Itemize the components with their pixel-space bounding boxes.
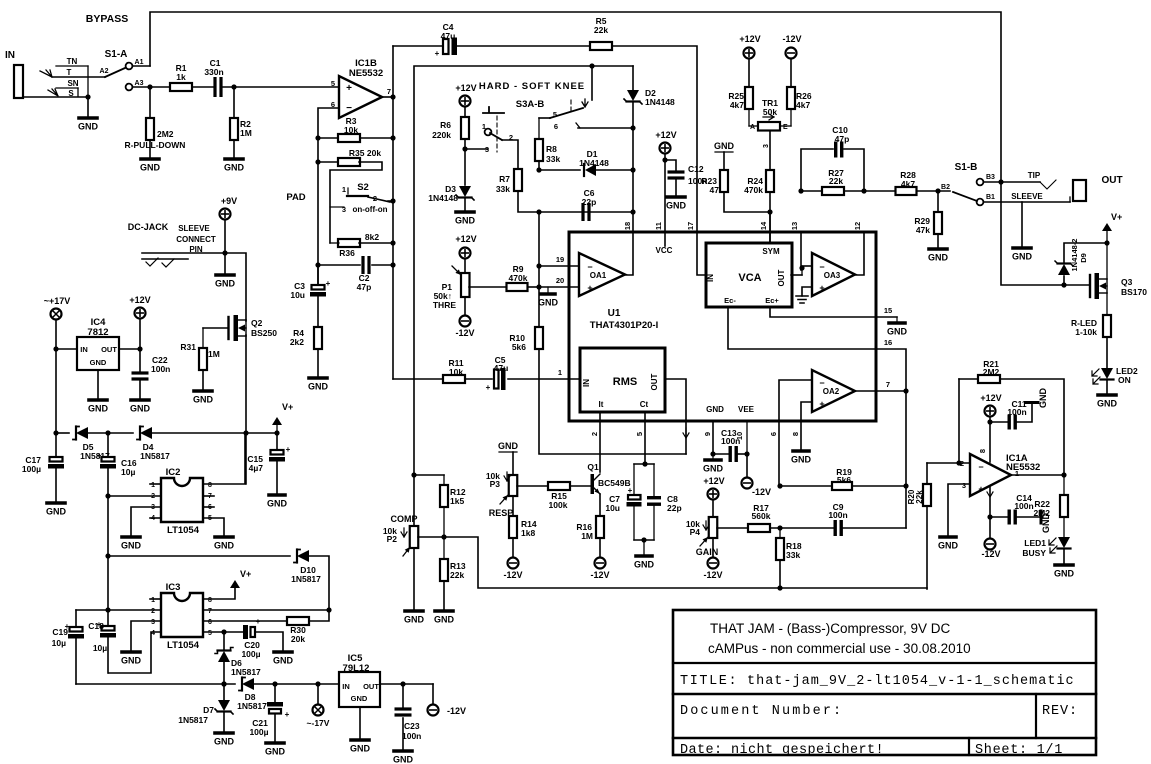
op-amp OA3 xyxy=(812,253,855,296)
svg-text:4µ7: 4µ7 xyxy=(249,463,264,473)
svg-text:GND: GND xyxy=(90,358,107,367)
svg-text:-12V: -12V xyxy=(503,570,522,580)
svg-text:GND: GND xyxy=(224,163,245,173)
resistor R17 560k xyxy=(748,524,770,532)
svg-text:2: 2 xyxy=(590,432,599,436)
svg-text:SLEEVE: SLEEVE xyxy=(178,224,210,233)
wire knee box left and top xyxy=(414,66,633,526)
svg-text:TITLE:: TITLE: xyxy=(680,674,738,689)
svg-text:3: 3 xyxy=(342,205,346,214)
svg-text:GND: GND xyxy=(455,216,476,226)
svg-text:GND: GND xyxy=(88,404,109,414)
ground R4 xyxy=(309,376,327,380)
svg-text:~-17V: ~-17V xyxy=(307,718,330,728)
svg-text:1N5817: 1N5817 xyxy=(231,667,261,677)
svg-text:+: + xyxy=(486,383,491,392)
svg-text:DC-JACK: DC-JACK xyxy=(128,222,169,232)
svg-text:33k: 33k xyxy=(496,184,510,194)
wire R1 to C1 xyxy=(192,86,214,88)
wire Ec+ to pin15 xyxy=(770,307,876,317)
svg-text:~+17V: ~+17V xyxy=(44,296,71,306)
wire IC3 pin7 line xyxy=(203,609,329,611)
svg-text:A: A xyxy=(750,124,755,131)
svg-text:VCA: VCA xyxy=(738,272,761,284)
wire TIP to Q3 gate xyxy=(1001,182,1089,285)
svg-text:GND: GND xyxy=(404,615,425,625)
diode D10 1N5817 xyxy=(297,550,309,562)
svg-text:ON: ON xyxy=(1118,375,1131,385)
svg-text:IN: IN xyxy=(342,682,350,691)
svg-text:D9: D9 xyxy=(1079,253,1088,263)
wire sleeve to ground xyxy=(85,94,90,99)
resistor R6 220k xyxy=(461,117,469,139)
ground R2 xyxy=(225,157,243,161)
wire P3 wiper to R15 xyxy=(517,485,548,487)
svg-text:1: 1 xyxy=(342,185,346,194)
wire IC1B inverting input to feedback xyxy=(318,108,339,285)
svg-text:OA2: OA2 xyxy=(823,387,840,396)
svg-text:+: + xyxy=(286,445,291,454)
connector OUT jack xyxy=(1073,180,1086,201)
capacitor C12 100n xyxy=(665,160,676,170)
resistor R25 4k7 xyxy=(745,87,753,109)
wire IC1A output xyxy=(1011,474,1064,476)
power -12V at IC1A xyxy=(985,539,996,550)
pin 11 VCC stub xyxy=(664,232,666,246)
diode D2 1N4148 xyxy=(632,66,634,90)
svg-text:It: It xyxy=(599,400,604,409)
wire D4 to V+ node xyxy=(152,432,277,434)
wire B3 to TIP xyxy=(984,181,1001,183)
regulator IC4 7812 xyxy=(77,337,119,370)
svg-text:S3A-B: S3A-B xyxy=(516,99,545,110)
ground R-PULL-DOWN xyxy=(141,157,159,161)
svg-text:GND: GND xyxy=(706,405,724,414)
svg-text:19: 19 xyxy=(556,255,564,264)
svg-text:THAT JAM - (Bass-)Compressor,: THAT JAM - (Bass-)Compressor, 9V DC xyxy=(710,621,951,636)
svg-text:IC3: IC3 xyxy=(166,582,181,593)
svg-text:COMP: COMP xyxy=(391,514,418,524)
wire A3 to R1 xyxy=(133,86,170,88)
svg-text:5k6: 5k6 xyxy=(512,342,526,352)
resistor R28 4k7 xyxy=(896,187,917,195)
wire bypass top rail xyxy=(150,12,1001,181)
wire IC2 pin2 xyxy=(108,495,161,497)
svg-text:Sheet: 1/1: Sheet: 1/1 xyxy=(975,743,1063,758)
svg-text:1N5817: 1N5817 xyxy=(140,451,170,461)
svg-text:GND: GND xyxy=(130,404,151,414)
svg-text:SN: SN xyxy=(67,79,78,88)
svg-text:on-off-on: on-off-on xyxy=(352,205,387,214)
resistor R13 22k xyxy=(440,559,448,581)
LED LED1 BUSY xyxy=(1058,537,1070,548)
svg-text:470k: 470k xyxy=(509,273,528,283)
svg-text:22k: 22k xyxy=(594,25,608,35)
svg-text:A1: A1 xyxy=(135,59,144,66)
resistor R10 5k6 xyxy=(535,327,543,349)
ground IC2 pin3 xyxy=(122,535,140,539)
ground IC5 xyxy=(359,707,361,739)
ground IC4 xyxy=(97,370,99,399)
svg-text:100n: 100n xyxy=(828,510,847,520)
svg-text:B3: B3 xyxy=(986,174,995,181)
capacitor C9 100n xyxy=(834,520,837,536)
wire Q1 emitter to R16 xyxy=(599,494,601,516)
pin 14 wire SYM xyxy=(769,212,771,243)
svg-text:+9V: +9V xyxy=(221,196,237,206)
pin15 external ground xyxy=(876,316,897,318)
svg-text:HARD - SOFT KNEE: HARD - SOFT KNEE xyxy=(479,81,585,92)
svg-text:GND: GND xyxy=(393,755,414,764)
transistor Q2 BS250 xyxy=(202,328,204,348)
wire Ec- to pin16 xyxy=(728,307,876,349)
svg-text:P3: P3 xyxy=(490,479,501,489)
svg-text:IN: IN xyxy=(582,379,591,387)
svg-text:C12: C12 xyxy=(688,164,704,174)
svg-text:9: 9 xyxy=(703,432,712,436)
ground C17 xyxy=(47,501,65,505)
capacitor C5 47u xyxy=(494,370,499,389)
wire Q2 drain down xyxy=(245,335,247,484)
ground IC3 pin3 xyxy=(122,650,140,654)
wire pin10 to -12V xyxy=(746,421,748,454)
svg-text:1k: 1k xyxy=(176,72,186,82)
resistor R12 1k5 xyxy=(443,475,445,485)
svg-text:R36: R36 xyxy=(339,248,355,258)
svg-text:GND: GND xyxy=(215,279,236,289)
svg-text:GAIN: GAIN xyxy=(696,547,719,557)
svg-text:TIP: TIP xyxy=(1028,171,1041,180)
svg-text:OUT: OUT xyxy=(777,269,786,286)
ground pin8 xyxy=(793,449,809,453)
svg-text:T: T xyxy=(67,68,72,77)
svg-text:SLEEVE: SLEEVE xyxy=(1011,192,1043,201)
svg-text:10µ: 10µ xyxy=(52,638,66,648)
svg-text:22k: 22k xyxy=(450,570,464,580)
wire P3 to R14 xyxy=(512,496,514,516)
wire IC5 out xyxy=(380,683,433,685)
svg-text:14: 14 xyxy=(759,221,768,230)
wire A1 to bypass rail xyxy=(133,65,150,67)
resistor R27 22k xyxy=(798,188,803,193)
wire P1 wiper to R9 xyxy=(469,286,507,288)
svg-text:R6: R6 xyxy=(440,120,451,130)
svg-text:10u: 10u xyxy=(605,503,620,513)
svg-text:1: 1 xyxy=(1015,469,1019,478)
svg-text:NE5532: NE5532 xyxy=(1006,462,1040,473)
power -12V at R16 xyxy=(595,558,606,569)
switch S3B pole xyxy=(570,100,572,114)
switch S3A contact 3 xyxy=(465,148,488,150)
capacitor C18 10u xyxy=(107,610,109,626)
svg-text:cAMPus - non commercial use -: cAMPus - non commercial use - 30.08.2010 xyxy=(708,641,971,656)
ground jack sleeve xyxy=(79,116,97,120)
svg-text:GND: GND xyxy=(351,694,368,703)
resistor R36 8k2 xyxy=(338,239,360,247)
wire IC2 pin5 to ground xyxy=(203,518,224,536)
ground C11 rotated xyxy=(1026,401,1038,404)
capacitor C21 100u xyxy=(274,684,276,702)
svg-text:+: + xyxy=(256,617,261,626)
svg-text:2: 2 xyxy=(151,608,155,615)
resistor R31 1M xyxy=(199,348,207,370)
op-amp IC1B NE5532 xyxy=(339,76,382,118)
svg-text:+: + xyxy=(435,49,440,58)
wire supply rail to D5 xyxy=(56,432,69,434)
svg-text:1k8: 1k8 xyxy=(521,528,535,538)
svg-text:P2: P2 xyxy=(387,534,398,544)
diode D6 1N5817 xyxy=(223,632,225,650)
svg-text:GND: GND xyxy=(538,298,559,308)
svg-text:A3: A3 xyxy=(135,80,144,87)
svg-text:+: + xyxy=(819,283,824,293)
svg-text:Ec-: Ec- xyxy=(724,296,736,305)
ground LED1 xyxy=(1055,563,1073,567)
svg-text:GND: GND xyxy=(928,253,949,263)
resistor R21 2M2 xyxy=(958,379,960,463)
svg-text:GND: GND xyxy=(434,615,455,625)
wire R30 to pin7 node xyxy=(309,610,329,621)
resistor R20 22k xyxy=(926,463,928,484)
svg-text:-12V: -12V xyxy=(703,570,722,580)
wire OA2 + to pin8 xyxy=(801,402,812,450)
svg-text:GND: GND xyxy=(666,201,687,211)
pin 12 wire OA3 out xyxy=(855,232,864,275)
svg-text:+: + xyxy=(628,486,633,495)
ground C15 xyxy=(269,493,285,497)
svg-text:10u: 10u xyxy=(290,290,305,300)
svg-text:OUT: OUT xyxy=(1101,175,1122,186)
capacitor C7 10u xyxy=(628,495,641,500)
ground C14 rotated xyxy=(1040,511,1043,523)
svg-text:LT1054: LT1054 xyxy=(167,640,200,651)
svg-text:2M2: 2M2 xyxy=(157,129,174,139)
resistor R1 1k xyxy=(170,83,192,91)
capacitor C11 100n xyxy=(990,421,1007,423)
diode D9 1N4148-2 xyxy=(1063,276,1065,285)
svg-text:GND: GND xyxy=(791,455,812,465)
svg-text:S1-A: S1-A xyxy=(105,49,128,60)
svg-text:50k: 50k xyxy=(763,107,777,117)
svg-text:1N5817: 1N5817 xyxy=(237,701,267,711)
svg-text:2M2: 2M2 xyxy=(983,367,1000,377)
wire +17V rail down xyxy=(55,320,57,433)
capacitor C8 22p xyxy=(647,496,661,499)
capacitor C17 100u xyxy=(55,433,57,457)
svg-text:GND: GND xyxy=(938,541,959,551)
svg-text:GND: GND xyxy=(1012,252,1033,262)
wire C7 C8 parallel loop xyxy=(642,461,647,466)
svg-text:3: 3 xyxy=(962,481,966,490)
wire P4 wiper to R17 xyxy=(717,527,748,529)
svg-text:330n: 330n xyxy=(204,67,223,77)
wire R35 to S2 xyxy=(330,162,382,243)
resistor R22 2M2 xyxy=(1063,475,1065,495)
svg-text:20k: 20k xyxy=(291,634,305,644)
svg-text:OUT: OUT xyxy=(363,682,379,691)
svg-text:3: 3 xyxy=(763,144,770,148)
svg-text:OUT: OUT xyxy=(650,373,659,390)
wire IC1B output xyxy=(382,96,393,98)
svg-text:IN: IN xyxy=(80,345,88,354)
svg-text:+: + xyxy=(978,484,983,494)
resistor R23 47 xyxy=(720,170,728,192)
svg-text:10µ: 10µ xyxy=(93,643,107,653)
svg-text:OUT: OUT xyxy=(101,345,117,354)
svg-text:22k: 22k xyxy=(829,176,843,186)
svg-text:22p: 22p xyxy=(582,197,597,207)
wire IC2 pin6 stub xyxy=(203,506,214,508)
svg-text:6: 6 xyxy=(554,122,558,131)
resistor R19 5k6 xyxy=(777,483,782,488)
wire R5 to VCA in xyxy=(612,46,706,275)
svg-text:GND: GND xyxy=(634,560,655,570)
svg-text:-12V: -12V xyxy=(447,706,466,716)
svg-text:13: 13 xyxy=(790,222,799,230)
resistor R5 22k xyxy=(590,42,612,50)
ground R13 xyxy=(435,609,453,613)
svg-text:12: 12 xyxy=(853,222,862,230)
svg-text:1N4148: 1N4148 xyxy=(645,97,675,107)
svg-text:4k7: 4k7 xyxy=(901,179,915,189)
connector IN jack xyxy=(14,65,23,98)
svg-text:+12V: +12V xyxy=(703,476,724,486)
svg-text:20: 20 xyxy=(556,276,564,285)
svg-text:R8: R8 xyxy=(546,144,557,154)
svg-text:A2: A2 xyxy=(100,68,109,75)
svg-text:15: 15 xyxy=(884,306,892,315)
ground D7 xyxy=(215,731,233,735)
potentiometer P2 10k COMP xyxy=(410,526,419,548)
ground P2 xyxy=(405,609,423,613)
wire R23 to R24 junction xyxy=(724,192,770,212)
svg-text:100n: 100n xyxy=(1014,501,1033,511)
wire pin3 to ground xyxy=(948,484,970,536)
svg-text:7812: 7812 xyxy=(87,327,108,338)
svg-text:47: 47 xyxy=(710,185,720,195)
wire -17V rail xyxy=(76,683,235,685)
svg-text:5: 5 xyxy=(208,630,212,637)
svg-text:GND: GND xyxy=(140,163,161,173)
transistor Q3 BS170 xyxy=(1106,243,1108,279)
wire RMS out to pin4 xyxy=(665,379,686,454)
svg-text:BC549B: BC549B xyxy=(598,478,631,488)
resistor R35 20k xyxy=(318,161,339,163)
wire IC3 pin1 stub xyxy=(150,598,161,600)
svg-text:OA3: OA3 xyxy=(824,271,841,280)
potentiometer TR1 50k xyxy=(758,122,780,131)
op-amp OA1 xyxy=(579,253,625,296)
svg-text:R-PULL-DOWN: R-PULL-DOWN xyxy=(125,140,186,150)
svg-text:GND: GND xyxy=(121,541,142,551)
ground C20 xyxy=(274,650,292,654)
svg-text:−: − xyxy=(978,462,983,472)
svg-text:1: 1 xyxy=(558,368,562,377)
svg-text:22k: 22k xyxy=(915,490,924,504)
svg-text:2: 2 xyxy=(960,459,964,468)
svg-text:5k6: 5k6 xyxy=(837,475,851,485)
svg-text:+: + xyxy=(97,451,102,460)
svg-text:Ec+: Ec+ xyxy=(765,296,779,305)
svg-text:C19: C19 xyxy=(52,627,68,637)
svg-text:33k: 33k xyxy=(546,154,560,164)
svg-text:5: 5 xyxy=(331,79,335,88)
svg-text:+12V: +12V xyxy=(129,295,150,305)
svg-text:8: 8 xyxy=(791,432,800,436)
capacitor C4 47u xyxy=(393,45,442,47)
transistor Q1 BC549B xyxy=(591,474,595,494)
svg-text:V+: V+ xyxy=(1111,212,1122,222)
svg-text:GND: GND xyxy=(1097,399,1118,409)
svg-text:GND: GND xyxy=(308,382,329,392)
power ~-17V xyxy=(317,684,319,704)
wire IC4 out xyxy=(119,348,140,350)
svg-text:47u: 47u xyxy=(494,363,509,373)
wire pin20 input xyxy=(539,286,579,288)
svg-text:+12V: +12V xyxy=(980,393,1001,403)
LED LED2 ON xyxy=(1101,368,1113,379)
svg-text:B2: B2 xyxy=(941,184,950,191)
ground C23 xyxy=(394,749,412,753)
svg-text:GND: GND xyxy=(46,507,67,517)
IC IC2 LT1054 xyxy=(161,478,203,522)
wire D9 to V+ node xyxy=(1064,243,1107,263)
svg-text:CONNECT: CONNECT xyxy=(176,235,216,244)
svg-text:Q2: Q2 xyxy=(251,318,263,328)
ground LED2 xyxy=(1098,393,1116,397)
svg-text:3: 3 xyxy=(151,619,155,626)
svg-text:-12V: -12V xyxy=(590,570,609,580)
svg-text:1-10k: 1-10k xyxy=(1075,327,1097,337)
svg-text:GND: GND xyxy=(1054,569,1075,579)
resistor R7 33k xyxy=(514,169,522,191)
svg-text:LT1054: LT1054 xyxy=(167,525,200,536)
ground C21 xyxy=(266,741,284,745)
svg-text:NE5532: NE5532 xyxy=(349,68,383,79)
wire comp line down to rail xyxy=(444,537,927,588)
svg-text:Ct: Ct xyxy=(640,400,649,409)
svg-text:33k: 33k xyxy=(786,550,800,560)
svg-text:PAD: PAD xyxy=(286,192,305,203)
svg-text:100µ: 100µ xyxy=(249,727,268,737)
svg-text:GND: GND xyxy=(78,122,99,132)
resistor R11 10k xyxy=(443,375,465,383)
svg-text:IC2: IC2 xyxy=(166,467,181,478)
wire R20 bottom to comp rail xyxy=(926,506,928,589)
svg-text:6: 6 xyxy=(769,432,778,436)
ground C12 xyxy=(667,195,685,199)
power -12V at P4 xyxy=(708,558,719,569)
svg-text:IN: IN xyxy=(706,274,715,282)
svg-text:GND: GND xyxy=(265,747,286,757)
svg-text:10k: 10k xyxy=(449,367,463,377)
svg-text:10µ: 10µ xyxy=(121,467,135,477)
pin 18 wire OA1 output xyxy=(625,232,633,275)
power -12V at P1 xyxy=(460,316,471,327)
wire to D10 xyxy=(108,555,290,557)
svg-text:V+: V+ xyxy=(282,402,293,412)
op-amp OA2 xyxy=(812,370,855,412)
svg-text:1M: 1M xyxy=(240,128,252,138)
capacitor C22 100n xyxy=(139,349,141,371)
svg-text:8: 8 xyxy=(978,449,987,453)
svg-text:100n: 100n xyxy=(151,364,170,374)
svg-text:TN: TN xyxy=(67,57,78,66)
svg-text:GND: GND xyxy=(1038,388,1048,409)
capacitor C3 10u xyxy=(317,265,319,285)
svg-text:-12V: -12V xyxy=(981,549,1000,559)
svg-text:GND: GND xyxy=(214,737,235,747)
